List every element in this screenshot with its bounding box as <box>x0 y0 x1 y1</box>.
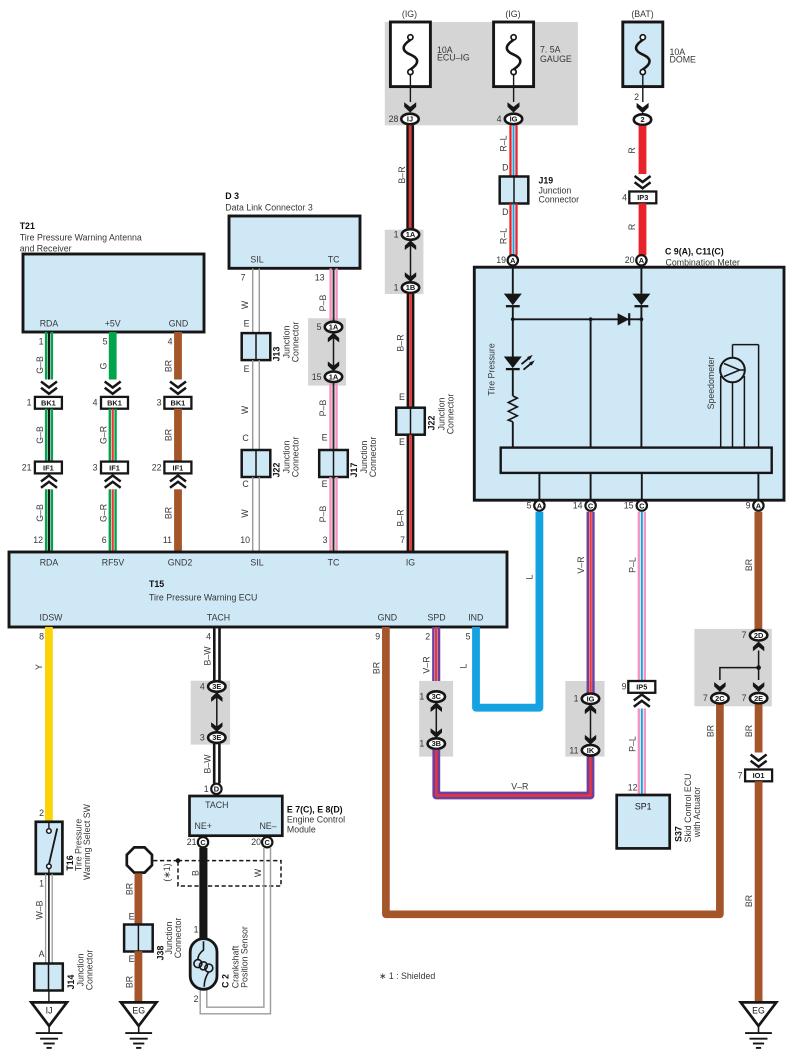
arrow into IO1 <box>751 755 767 767</box>
svg-text:∗ 1 : Shielded: ∗ 1 : Shielded <box>379 971 435 981</box>
connector BK1 pin 3 <box>157 397 192 409</box>
svg-text:G–R: G–R <box>99 426 109 444</box>
svg-text:NE–: NE– <box>259 821 276 831</box>
svg-text:TC: TC <box>328 255 340 265</box>
svg-text:V–R: V–R <box>422 656 432 673</box>
svg-text:IJ: IJ <box>407 115 413 124</box>
meter pin circle 20(A) <box>625 255 647 265</box>
ECM pin circle 20(C) <box>251 837 272 847</box>
svg-text:1: 1 <box>419 692 424 702</box>
connector oval 1B (pin 1) <box>394 282 420 293</box>
wire W-B from T16 to J14 <box>34 874 53 964</box>
svg-text:R–L: R–L <box>499 228 509 244</box>
TC wire P-B (J17 to T15) <box>318 477 338 552</box>
svg-text:C 9(A), C11(C): C 9(A), C11(C) <box>665 246 724 256</box>
svg-text:Connector: Connector <box>368 437 378 478</box>
svg-text:P–B: P–B <box>318 400 328 417</box>
svg-text:(IG): (IG) <box>402 9 417 19</box>
crankshaft position sensor C2 <box>190 924 217 1004</box>
svg-text:IJ: IJ <box>46 1006 53 1016</box>
svg-text:BK1: BK1 <box>107 399 122 408</box>
arrows out of IF1 row <box>41 476 57 488</box>
svg-text:J22: J22 <box>427 416 437 431</box>
svg-text:RDA: RDA <box>40 319 59 329</box>
svg-text:10: 10 <box>240 535 250 545</box>
TC wire P-B (1A to J17) <box>318 383 338 450</box>
wire V-R from IG up to meter 14(C) <box>576 512 595 693</box>
svg-text:B–W: B–W <box>203 754 213 774</box>
svg-text:3E: 3E <box>212 733 221 742</box>
svg-text:E: E <box>322 479 328 489</box>
svg-text:L: L <box>459 663 469 668</box>
svg-text:W: W <box>240 509 250 518</box>
connector oval 2E (pin 7) <box>742 693 768 704</box>
wire B-W from T15 TACH to 3E <box>203 627 221 681</box>
svg-text:E: E <box>244 364 250 374</box>
ground EG left <box>121 1002 157 1048</box>
svg-text:7: 7 <box>703 693 708 703</box>
svg-text:P–B: P–B <box>318 506 328 523</box>
TC wire P-B (D3 to 1A) <box>315 268 338 320</box>
ground EG right <box>741 1002 777 1048</box>
svg-text:2: 2 <box>634 92 639 102</box>
wire V-R from T15 SPD to 3C <box>422 627 441 681</box>
svg-text:D: D <box>214 785 220 794</box>
svg-text:4: 4 <box>168 336 173 346</box>
label J19 junction connector <box>539 176 580 205</box>
svg-text:BR: BR <box>744 895 754 907</box>
svg-text:1: 1 <box>394 283 399 293</box>
junction node left <box>511 317 515 321</box>
svg-text:G–R: G–R <box>99 504 109 522</box>
svg-text:J17: J17 <box>349 463 359 478</box>
fuse GAUGE 7.5A <box>494 9 572 113</box>
svg-text:Y: Y <box>34 664 44 670</box>
svg-text:SIL: SIL <box>250 558 263 568</box>
svg-text:J22: J22 <box>272 463 282 478</box>
svg-text:2: 2 <box>194 994 199 1004</box>
connector IF1 pin 3 <box>93 462 128 474</box>
svg-text:C: C <box>200 838 206 847</box>
connector oval 2 <box>634 114 651 125</box>
wire R-L from J19 to meter pin 19 <box>499 204 518 256</box>
svg-text:BK1: BK1 <box>171 399 186 408</box>
svg-text:G–B: G–B <box>35 426 45 444</box>
wire BR IF1 to T15 GND2 <box>163 489 182 552</box>
svg-text:and Receiver: and Receiver <box>20 243 72 253</box>
svg-text:IF1: IF1 <box>43 463 54 472</box>
meter internal bus bar <box>501 448 772 473</box>
svg-text:W: W <box>240 300 250 309</box>
arrows between 3C and 3B <box>431 702 442 738</box>
svg-text:1: 1 <box>419 739 424 749</box>
svg-text:7. 5A: 7. 5A <box>540 44 561 54</box>
wire L from T15 IND to meter 5(A) <box>476 512 539 708</box>
wire G from T21 +5V <box>99 332 117 380</box>
svg-text:9: 9 <box>375 631 380 641</box>
svg-text:20: 20 <box>251 837 261 847</box>
connector oval IG (pin 1) <box>574 693 600 704</box>
svg-text:J13: J13 <box>272 347 282 362</box>
svg-text:IG: IG <box>406 558 415 568</box>
wire G-B BK1 to IF1 <box>35 409 53 462</box>
svg-text:C: C <box>588 501 594 510</box>
svg-text:W: W <box>253 868 263 877</box>
svg-text:28: 28 <box>389 114 399 124</box>
svg-text:Tire Pressure: Tire Pressure <box>487 343 497 396</box>
svg-text:3E: 3E <box>212 682 221 691</box>
svg-text:A: A <box>39 949 45 959</box>
shield junction dot <box>176 858 181 863</box>
connector IP5 (pin 9) <box>622 681 656 693</box>
svg-text:IND: IND <box>468 613 483 623</box>
meter pin circle 14(C) <box>573 500 596 510</box>
diode D1 <box>504 294 522 307</box>
svg-text:3C: 3C <box>432 692 442 701</box>
svg-text:G–B: G–B <box>35 504 45 522</box>
wire BR octagon to J38 <box>125 873 143 924</box>
svg-text:IG: IG <box>510 115 518 124</box>
svg-text:3: 3 <box>200 733 205 743</box>
svg-text:BR: BR <box>125 883 135 895</box>
ECM pin circle 21(C) <box>187 837 208 847</box>
svg-text:G: G <box>99 362 109 369</box>
svg-text:NE+: NE+ <box>195 821 212 831</box>
wire G-B IF1 to T15 RDA <box>33 489 53 552</box>
svg-text:SPD: SPD <box>427 613 445 623</box>
wire B-R from 1B to J22 <box>395 294 414 408</box>
svg-text:Connector: Connector <box>539 194 580 204</box>
shading panel: connector 3E/3E <box>191 681 230 745</box>
svg-text:7: 7 <box>400 535 405 545</box>
svg-text:T21: T21 <box>20 221 35 231</box>
svg-text:1A: 1A <box>329 323 339 332</box>
connector oval 2C (pin 7) <box>703 693 729 704</box>
svg-text:TACH: TACH <box>207 613 230 623</box>
connector oval IK (pin 11) <box>569 745 599 756</box>
svg-text:with Actuator: with Actuator <box>692 787 702 838</box>
arrow into IP3 <box>635 176 651 188</box>
svg-text:9: 9 <box>746 501 751 511</box>
svg-text:B–R: B–R <box>397 166 407 183</box>
junction dot 2D/2C/2E <box>756 665 761 670</box>
svg-text:20: 20 <box>625 255 635 265</box>
label J22 junction connector <box>272 437 301 478</box>
svg-text:BR: BR <box>125 976 135 988</box>
svg-text:A: A <box>639 256 645 265</box>
svg-text:2D: 2D <box>754 631 764 640</box>
svg-text:BR: BR <box>744 725 754 737</box>
svg-text:(BAT): (BAT) <box>631 9 653 19</box>
svg-text:4: 4 <box>622 192 627 202</box>
wire Y from T15 IDSW to T16 <box>34 627 53 822</box>
link to 2E <box>753 668 764 692</box>
label J22 junction connector <box>427 394 456 435</box>
svg-text:IG: IG <box>587 694 595 703</box>
arrows between 3E and 3E <box>211 692 222 732</box>
label J17 junction connector <box>349 437 378 478</box>
junction connector J22 (IG line) <box>396 408 425 435</box>
diode D3 (horizontal) <box>618 313 630 325</box>
svg-text:IP5: IP5 <box>636 683 647 692</box>
svg-text:C: C <box>242 479 249 489</box>
svg-text:7: 7 <box>738 770 743 780</box>
svg-text:1: 1 <box>194 924 199 934</box>
wire P-L from IP5 to SP1 <box>628 709 646 796</box>
svg-text:C: C <box>265 838 271 847</box>
svg-text:Connector: Connector <box>173 918 183 959</box>
dashed link from octagon <box>153 860 178 862</box>
label S37 skid control ECU <box>674 774 703 843</box>
svg-text:7: 7 <box>742 693 747 703</box>
svg-text:BK1: BK1 <box>41 399 56 408</box>
svg-text:L: L <box>525 574 535 579</box>
svg-text:S37: S37 <box>674 826 684 842</box>
arrows between 1A and 1A <box>328 333 339 372</box>
SIL wire W (J22 to T15) <box>240 477 260 552</box>
resistor <box>508 396 517 422</box>
svg-text:2: 2 <box>425 631 430 641</box>
connector IO1 (pin 7) <box>738 770 773 782</box>
svg-text:J14: J14 <box>66 975 76 990</box>
connector oval 3E (pin 3) <box>200 732 226 743</box>
svg-text:11: 11 <box>569 745 578 755</box>
svg-text:V–R: V–R <box>576 556 586 573</box>
wire R from IP3 to meter pin 20 <box>627 203 646 255</box>
junction connector J13 <box>242 333 271 360</box>
combination meter box <box>474 267 784 500</box>
svg-text:D 3: D 3 <box>225 191 239 201</box>
svg-text:Connector: Connector <box>446 394 456 435</box>
svg-text:SIL: SIL <box>250 255 263 265</box>
svg-text:1: 1 <box>39 879 44 889</box>
svg-text:BR: BR <box>744 559 754 571</box>
wire B from ECM NE+ to C2 pin 1 <box>191 848 208 939</box>
svg-text:P–L: P–L <box>628 557 638 573</box>
svg-text:G–B: G–B <box>35 356 45 374</box>
svg-text:R–L: R–L <box>499 135 509 151</box>
shading panel: connector IG/IK <box>565 681 604 757</box>
svg-text:22: 22 <box>152 462 162 472</box>
svg-text:EG: EG <box>752 1006 765 1016</box>
shading panel: connector 3C/3B <box>419 681 453 757</box>
meter pin circle 19(A) <box>496 255 518 265</box>
svg-text:A: A <box>756 501 762 510</box>
svg-text:IP3: IP3 <box>637 193 648 202</box>
svg-text:1: 1 <box>394 229 399 239</box>
svg-text:E 7(C), E 8(D): E 7(C), E 8(D) <box>287 805 343 815</box>
svg-text:TC: TC <box>328 558 340 568</box>
svg-text:E: E <box>129 954 135 964</box>
svg-text:1B: 1B <box>406 283 415 292</box>
meter pin circle 15(C) <box>624 500 647 510</box>
label T16 <box>65 803 92 880</box>
svg-text:EG: EG <box>132 1006 145 1016</box>
svg-text:Warning Select SW: Warning Select SW <box>82 803 92 880</box>
connector oval 1A (pin 15) <box>312 372 342 383</box>
svg-text:GND: GND <box>378 613 398 623</box>
svg-text:3: 3 <box>157 398 162 408</box>
svg-text:3B: 3B <box>432 739 441 748</box>
svg-text:DOME: DOME <box>670 54 697 64</box>
switch T16 tire pressure warning select <box>36 822 63 874</box>
svg-text:19: 19 <box>496 255 506 265</box>
connector oval IG <box>505 114 522 125</box>
svg-text:21: 21 <box>22 462 32 472</box>
svg-text:SP1: SP1 <box>635 802 652 812</box>
junction node middle <box>589 317 593 321</box>
svg-text:E: E <box>399 437 405 447</box>
fuse ECU-IG 10A <box>390 9 470 113</box>
svg-text:Connector: Connector <box>291 322 301 363</box>
svg-text:9: 9 <box>622 682 627 692</box>
link to 2C <box>714 668 758 692</box>
LED tire pressure indicator <box>504 355 535 370</box>
wire BR from T15 GND down right and up to 2C <box>386 627 720 914</box>
wire P-L from meter 15(C) to IP5 <box>628 512 646 681</box>
svg-text:BR: BR <box>706 725 716 737</box>
arrows into BK1 row <box>41 382 57 394</box>
svg-text:Connector: Connector <box>84 950 94 991</box>
svg-text:(∗1): (∗1) <box>162 863 172 881</box>
svg-text:2: 2 <box>640 115 644 124</box>
wire BR J38 to EG ground <box>125 951 143 1002</box>
svg-text:TACH: TACH <box>205 800 228 810</box>
ECM box <box>190 796 283 836</box>
svg-text:IK: IK <box>587 746 595 755</box>
wire B-W from 3E to ECM TACH <box>203 744 221 784</box>
arrow out of IP5 <box>634 695 650 707</box>
wire R from 2 to IP3 <box>627 126 646 174</box>
junction connector J17 <box>319 450 348 477</box>
svg-text:R: R <box>627 224 637 230</box>
connector oval 3E (pin 4) <box>200 681 226 692</box>
junction connector J14 <box>34 964 63 991</box>
connector IF1 pin 22 <box>152 462 192 474</box>
wire B-R from IJ to connector 1A <box>397 125 414 228</box>
svg-text:15: 15 <box>624 501 634 511</box>
shading panel: fuse block <box>385 22 578 125</box>
meter pin circle 5(A) <box>527 500 545 510</box>
svg-text:4: 4 <box>93 398 98 408</box>
svg-text:1: 1 <box>39 336 44 346</box>
wire G-R IF1 to T15 RF5V <box>99 489 117 552</box>
svg-text:GND: GND <box>169 319 189 329</box>
wire BR from 2E to IO1 <box>744 705 762 753</box>
svg-text:E: E <box>399 392 405 402</box>
connector IP3 (pin 4) <box>622 192 656 204</box>
connector BK1 pin 1 <box>27 397 62 409</box>
shading panel: connector 1A/1B <box>385 230 424 294</box>
svg-text:Data Link Connector 3: Data Link Connector 3 <box>225 202 313 212</box>
arrows between IG and IK <box>585 704 596 744</box>
diode D2 <box>632 294 650 307</box>
svg-text:BR: BR <box>164 429 174 441</box>
svg-text:(IG): (IG) <box>505 9 520 19</box>
SIL wire W (D3 to J13) <box>240 268 260 332</box>
svg-text:Speedometer: Speedometer <box>706 357 716 410</box>
svg-text:D: D <box>502 207 508 217</box>
svg-text:5: 5 <box>317 322 322 332</box>
junction connector J22 (SIL line) <box>242 450 271 477</box>
svg-text:1A: 1A <box>406 230 416 239</box>
svg-text:BR: BR <box>164 360 174 372</box>
wire BR from meter 9(A) to 2D <box>744 512 762 630</box>
wire G-B from T21 RDA <box>35 332 53 380</box>
svg-text:+5V: +5V <box>105 319 121 329</box>
arrow up into 2D <box>753 642 764 668</box>
SIL wire W (J13 to J22) <box>240 360 260 450</box>
wire B-R from J22 to T15 pin 7 <box>395 435 414 552</box>
svg-text:IF1: IF1 <box>173 463 184 472</box>
svg-text:IO1: IO1 <box>753 771 765 780</box>
connector oval 3B (pin 1) <box>419 738 445 749</box>
svg-text:4: 4 <box>497 114 502 124</box>
svg-text:5: 5 <box>103 336 108 346</box>
shading panel: connector 2C/2D/2E <box>694 629 771 706</box>
svg-text:P–B: P–B <box>318 295 328 312</box>
svg-text:Tire Pressure Warning Antenna: Tire Pressure Warning Antenna <box>20 232 142 242</box>
svg-text:Connector: Connector <box>291 437 301 478</box>
svg-text:T15: T15 <box>149 579 164 589</box>
svg-text:Tire Pressure Warning ECU: Tire Pressure Warning ECU <box>149 593 257 603</box>
svg-text:B–R: B–R <box>395 334 405 351</box>
shading panel: connector 1A/1A (TC) <box>308 318 346 385</box>
svg-text:7: 7 <box>742 630 747 640</box>
svg-text:V–R: V–R <box>511 781 528 791</box>
svg-text:W–B: W–B <box>34 900 44 919</box>
T21 box <box>23 254 204 332</box>
junction connector J38 <box>124 925 153 952</box>
svg-text:1A: 1A <box>329 372 339 381</box>
arrows between 1A and 1B <box>405 240 416 282</box>
svg-text:6: 6 <box>102 535 107 545</box>
svg-text:12: 12 <box>33 535 43 545</box>
svg-text:C: C <box>242 433 249 443</box>
connector BK1 pin 4 <box>93 397 128 409</box>
svg-text:RF5V: RF5V <box>102 558 125 568</box>
svg-text:B: B <box>191 870 201 876</box>
meter internal wiring <box>513 266 642 448</box>
svg-text:A: A <box>537 501 543 510</box>
svg-text:4: 4 <box>206 631 211 641</box>
wire V-R from 3B right and up to IK <box>436 750 590 796</box>
svg-text:D: D <box>502 163 508 173</box>
speedometer symbol <box>720 345 758 448</box>
T15 box <box>9 552 507 627</box>
svg-text:8: 8 <box>39 631 44 641</box>
svg-text:IDSW: IDSW <box>40 613 64 623</box>
shield octagon <box>127 847 152 872</box>
svg-text:21: 21 <box>187 837 197 847</box>
connector oval 2D (pin 7) <box>742 630 768 641</box>
label J13 junction connector <box>272 322 301 363</box>
svg-text:1: 1 <box>574 694 579 704</box>
svg-text:Module: Module <box>287 824 316 834</box>
svg-text:2: 2 <box>39 808 44 818</box>
svg-text:2C: 2C <box>715 694 725 703</box>
label J14 junction connector <box>66 950 95 991</box>
connector oval IJ <box>401 114 418 125</box>
svg-text:7: 7 <box>241 272 246 282</box>
ground IJ <box>31 1002 67 1048</box>
svg-text:ECU–IG: ECU–IG <box>437 52 470 62</box>
junction connector J19 <box>500 177 529 204</box>
svg-text:P–L: P–L <box>628 736 638 752</box>
svg-text:E: E <box>244 319 250 329</box>
wire BR BK1 to IF1 <box>164 409 182 462</box>
svg-text:BR: BR <box>164 507 174 519</box>
